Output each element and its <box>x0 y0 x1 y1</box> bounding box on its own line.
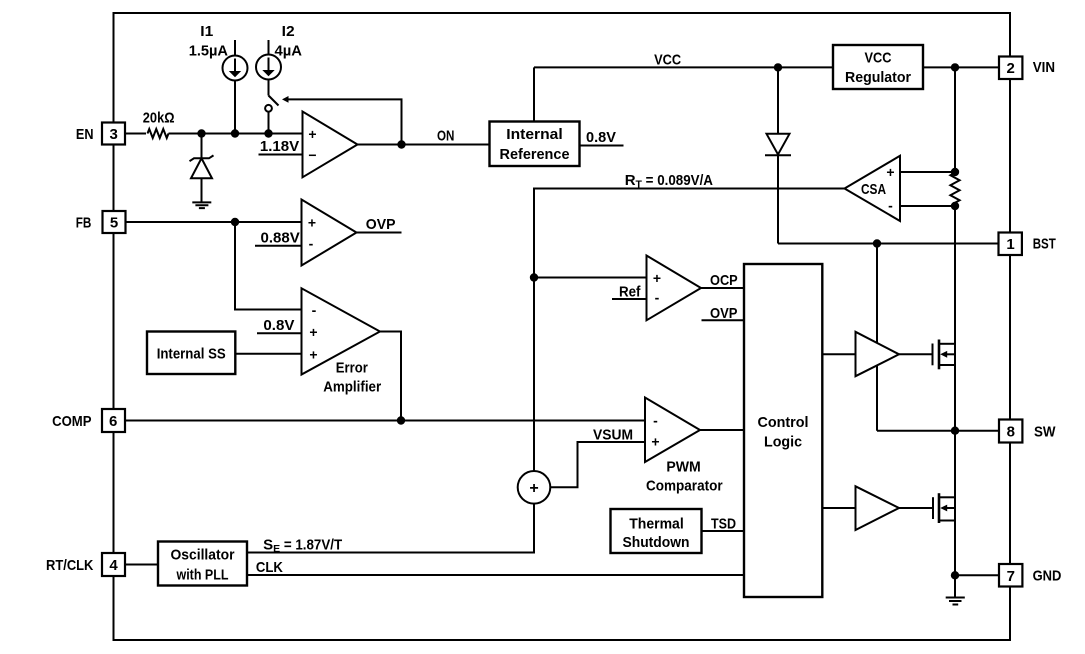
wire VCC vertical <box>533 67 535 121</box>
svg-text:Thermal: Thermal <box>629 516 684 533</box>
current source I1 <box>223 56 248 81</box>
wire CSA minus input <box>900 205 955 207</box>
PWM comparator U5 <box>645 398 700 463</box>
svg-text:6: 6 <box>109 413 117 430</box>
VCC regulator box <box>833 45 923 89</box>
amplifier polarity marks <box>308 126 895 497</box>
junction CSA minus node <box>951 202 959 210</box>
summing junction <box>518 471 551 504</box>
wire I2 to switch <box>268 80 270 96</box>
svg-text:1.18V: 1.18V <box>260 138 299 155</box>
junction node SW <box>951 427 959 435</box>
control logic box <box>744 264 822 597</box>
wire CSA plus input <box>900 171 955 173</box>
svg-text:Internal: Internal <box>506 126 562 143</box>
switch control arrowhead <box>282 96 289 103</box>
wire OVP out <box>357 232 402 234</box>
wire VCC rail <box>534 66 833 68</box>
wire OCP output <box>701 287 744 289</box>
MOSFET Q1 body arrowhead <box>940 351 947 358</box>
svg-text:EN: EN <box>76 126 94 143</box>
svg-text:Error: Error <box>336 360 368 377</box>
wire I1 to EN net <box>234 81 236 134</box>
svg-text:RT/CLK: RT/CLK <box>46 557 94 574</box>
wire bootstrap BST to SW <box>876 244 878 431</box>
wire OVP into control logic <box>702 319 745 321</box>
svg-text:-: - <box>309 236 314 252</box>
wire error amp output <box>380 332 401 421</box>
wire RT line <box>534 189 845 472</box>
wire CLK line <box>247 574 744 576</box>
wire SS to error amp <box>235 353 301 355</box>
MOSFET Q1 <box>933 340 956 370</box>
switch S1 blade <box>269 96 279 106</box>
wire summing to VSUM <box>550 442 645 487</box>
svg-text:VCC: VCC <box>654 52 681 69</box>
wire OCP input <box>534 277 647 279</box>
svg-text:OCP: OCP <box>710 272 738 289</box>
junction RT-OCP node <box>530 273 538 281</box>
CSA amplifier <box>845 156 901 221</box>
svg-text:−: − <box>308 147 316 163</box>
svg-text:Reference: Reference <box>500 146 570 163</box>
pin 1 box <box>999 233 1022 256</box>
svg-text:+: + <box>308 215 316 231</box>
internal SS box <box>147 332 235 375</box>
wire pin4 to oscillator <box>125 564 158 566</box>
svg-text:+: + <box>309 347 317 363</box>
junction EN-I2 node <box>264 129 272 137</box>
wire EN net <box>169 133 303 135</box>
svg-text:-: - <box>655 290 660 306</box>
0.8V output line <box>580 145 624 147</box>
svg-text:2: 2 <box>1007 60 1015 77</box>
svg-text:ON: ON <box>437 128 454 145</box>
wire I2 supply <box>268 40 270 55</box>
diode D2 <box>767 134 790 155</box>
zener diode D1 <box>190 155 214 161</box>
svg-text:0.88V: 0.88V <box>261 229 300 246</box>
svg-text:4: 4 <box>109 557 118 574</box>
junction node GND <box>951 571 959 579</box>
svg-text:1.5µA: 1.5µA <box>189 42 228 59</box>
svg-text:5: 5 <box>110 214 118 231</box>
svg-text:BST: BST <box>1033 236 1056 253</box>
wire BST net <box>778 243 999 245</box>
svg-text:I1: I1 <box>200 23 213 40</box>
wire switch to EN net <box>268 112 270 134</box>
IC boundary box <box>114 13 1011 640</box>
switch S1 contact <box>265 105 272 112</box>
resistor R1 20k ohm <box>148 129 169 138</box>
wire low driver to gate <box>899 507 933 509</box>
wire FB branch to error amp <box>235 222 302 310</box>
high side driver <box>856 332 900 376</box>
1.18V reference line <box>259 154 303 156</box>
svg-text:+: + <box>309 324 317 340</box>
svg-text:VCC: VCC <box>865 50 892 67</box>
I1 arrowhead <box>229 71 241 77</box>
wire diode to BST <box>777 155 779 243</box>
wire VCC node to diode D2 <box>777 67 779 133</box>
svg-text:+: + <box>529 480 538 497</box>
wire GND net <box>955 574 999 576</box>
svg-text:SW: SW <box>1034 423 1056 440</box>
wire SW net <box>877 430 999 432</box>
wire TSD <box>702 530 745 532</box>
pin 7 box <box>999 564 1022 587</box>
current source I2 <box>256 55 281 80</box>
svg-text:PWM: PWM <box>666 459 700 476</box>
wire PWM output <box>700 429 744 431</box>
junction node COMP <box>397 416 405 424</box>
svg-text:Internal SS: Internal SS <box>157 346 226 363</box>
svg-text:FB: FB <box>76 214 92 231</box>
junction node ON <box>397 140 405 148</box>
arrowheads <box>229 70 947 511</box>
Ref line <box>612 298 647 300</box>
svg-text:VIN: VIN <box>1033 59 1055 76</box>
wire comparator feedback to switch <box>288 99 402 144</box>
svg-text:CLK: CLK <box>256 559 283 576</box>
junction EN-zener node <box>197 129 205 137</box>
wire rail to FET chain <box>954 203 956 597</box>
OCP comparator U4 <box>647 256 702 321</box>
svg-text:Control: Control <box>758 414 809 431</box>
wire EN node to zener <box>201 134 203 159</box>
svg-text:I2: I2 <box>282 23 295 40</box>
svg-text:+: + <box>886 164 894 180</box>
ground (power) <box>946 598 965 605</box>
svg-text:+: + <box>653 270 661 286</box>
wire SE line <box>247 504 534 553</box>
error amplifier U3 <box>302 288 381 374</box>
junction VCC-VIN node <box>951 63 959 71</box>
svg-text:COMP: COMP <box>52 413 91 430</box>
svg-text:7: 7 <box>1007 568 1015 585</box>
svg-text:OVP: OVP <box>366 216 396 233</box>
wire I1 supply <box>234 40 236 56</box>
pin 4 box <box>102 553 125 576</box>
OVP comparator U2 <box>302 200 357 266</box>
svg-text:CSA: CSA <box>861 181 886 198</box>
svg-text:20kΩ: 20kΩ <box>143 110 175 127</box>
svg-text:Comparator: Comparator <box>646 478 723 495</box>
pin 2 box <box>999 57 1022 80</box>
svg-text:8: 8 <box>1007 423 1015 440</box>
wire EN from pin3 to resistor <box>125 133 146 135</box>
svg-text:TSD: TSD <box>711 516 736 533</box>
svg-text:OVP: OVP <box>710 305 738 322</box>
junction node BST <box>873 239 881 247</box>
svg-text:Regulator: Regulator <box>845 69 911 86</box>
svg-text:Amplifier: Amplifier <box>323 378 381 395</box>
svg-text:-: - <box>312 302 317 318</box>
svg-text:with PLL: with PLL <box>176 567 229 584</box>
svg-text:VSUM: VSUM <box>593 426 633 443</box>
svg-text:Logic: Logic <box>764 433 802 450</box>
svg-text:0.8V: 0.8V <box>263 317 294 334</box>
svg-text:Oscillator: Oscillator <box>171 547 235 564</box>
MOSFET Q2 body arrowhead <box>940 505 947 512</box>
svg-text:0.8V: 0.8V <box>586 129 616 146</box>
wire COMP net <box>125 420 645 422</box>
wire VIN rail down <box>954 67 956 175</box>
junction EN-I1 node <box>231 129 239 137</box>
MOSFET Q2 <box>933 493 955 523</box>
junction CSA plus node <box>951 168 959 176</box>
low side driver <box>856 486 900 530</box>
pin 8 box <box>999 420 1022 443</box>
svg-text:1: 1 <box>1006 236 1014 253</box>
pin 3 box <box>102 123 125 145</box>
svg-text:3: 3 <box>110 126 118 143</box>
internal reference box <box>490 122 580 167</box>
thermal shutdown box <box>611 509 702 553</box>
svg-text:+: + <box>308 126 316 142</box>
pin 6 box <box>102 409 125 432</box>
comparator U1 enable <box>303 112 358 178</box>
junction node FB <box>231 218 239 226</box>
pin 5 box <box>103 211 126 233</box>
0.8V reference line <box>257 332 302 334</box>
junction VCC-diode node <box>774 63 782 71</box>
svg-text:4µA: 4µA <box>275 42 303 59</box>
wire FB net <box>125 221 302 223</box>
wire ON <box>358 144 490 146</box>
I2 arrowhead <box>262 70 274 76</box>
0.88V reference line <box>255 245 302 247</box>
svg-text:-: - <box>653 413 658 429</box>
ground (zener) <box>192 202 211 208</box>
svg-text:-: - <box>888 198 893 214</box>
svg-text:+: + <box>651 434 659 450</box>
wire control to high driver <box>822 353 855 355</box>
wire high driver to gate <box>899 353 933 355</box>
oscillator box <box>158 542 247 586</box>
svg-text:Shutdown: Shutdown <box>623 534 690 551</box>
wire control to low driver <box>822 507 855 509</box>
resistor R2 current sense <box>950 173 959 203</box>
svg-text:Ref: Ref <box>619 284 641 301</box>
svg-text:GND: GND <box>1033 568 1062 585</box>
